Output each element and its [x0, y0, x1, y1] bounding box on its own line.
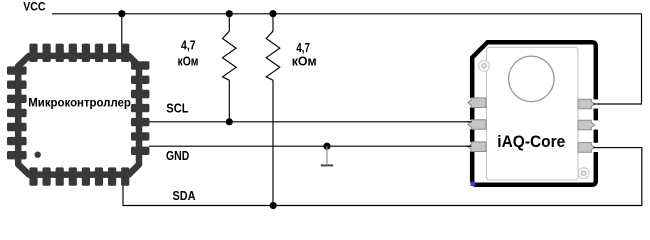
MCU bottom pins — [29, 167, 129, 185]
wire GND — [149, 145, 471, 147]
svg-text:SCL: SCL — [166, 101, 188, 115]
MCU top pins — [29, 44, 129, 62]
node junction GND-ground — [323, 143, 330, 150]
pad R2 — [578, 120, 595, 130]
pad R3 — [578, 143, 595, 153]
wire VCC stub to microcontroller top pin — [121, 14, 123, 46]
MCU right pins — [131, 61, 149, 155]
pad R1 border knockout — [592, 99, 599, 108]
wire R1 bottom lead to SCL — [228, 80, 230, 122]
module sensor opening circle — [509, 56, 554, 101]
svg-text:GND: GND — [166, 149, 189, 163]
pad L1 border knockout — [469, 98, 475, 107]
wire stub GND to pad L3 — [467, 145, 472, 147]
wire R1 top lead — [228, 14, 230, 32]
wire R2 top lead — [272, 14, 274, 32]
module inner outline — [487, 47, 579, 180]
iAQ-Core module U2 — [467, 42, 599, 186]
pad L1 — [468, 98, 486, 108]
svg-text:Микроконтроллер: Микроконтроллер — [28, 97, 131, 109]
module screw bottom-right — [578, 168, 589, 179]
wire stub SDA to pad R3 — [594, 147, 600, 149]
resistor R1 — [223, 31, 237, 80]
svg-text:SDA: SDA — [173, 189, 196, 203]
MCU left pins — [7, 66, 27, 159]
wire stub VCC to pad R1 — [594, 103, 600, 105]
svg-text:4,7: 4,7 — [181, 39, 196, 53]
resistor R2 — [266, 31, 280, 80]
blue corner mark — [471, 182, 476, 187]
ground symbol — [326, 146, 328, 164]
svg-text:кОм: кОм — [178, 55, 199, 69]
MCU pin-1 dot — [35, 152, 41, 158]
pad R3 border knockout — [592, 143, 599, 152]
node junction R1-SCL — [226, 118, 233, 125]
node junction VCC-R2 — [269, 10, 276, 17]
wire VCC rail — [52, 14, 642, 104]
microcontroller U1 — [7, 44, 149, 186]
wire SDA — [123, 148, 642, 206]
svg-text:iAQ-Core: iAQ-Core — [497, 133, 565, 151]
pad L2 — [468, 120, 486, 130]
svg-text:4,7: 4,7 — [296, 41, 310, 55]
pad R2 border knockout — [592, 120, 599, 129]
wire SCL — [149, 121, 471, 123]
wire R2 bottom lead down to SDA — [272, 80, 274, 205]
svg-text:VCC: VCC — [23, 2, 45, 14]
pad R1 — [578, 99, 595, 109]
pad L3 border knockout — [469, 142, 475, 151]
node junction R2-SDA — [270, 202, 277, 209]
module screw top-left — [479, 60, 490, 71]
MCU body frame — [18, 56, 139, 175]
module body with chamfered top-left corner — [472, 42, 596, 185]
node junction VCC-R1 — [226, 10, 233, 17]
svg-text:кОм: кОм — [292, 54, 317, 68]
node junction VCC-MCU — [118, 10, 125, 17]
pad L3 — [468, 142, 486, 152]
wire stub SCL to pad L2 — [467, 121, 472, 123]
pad L2 border knockout — [469, 120, 475, 129]
